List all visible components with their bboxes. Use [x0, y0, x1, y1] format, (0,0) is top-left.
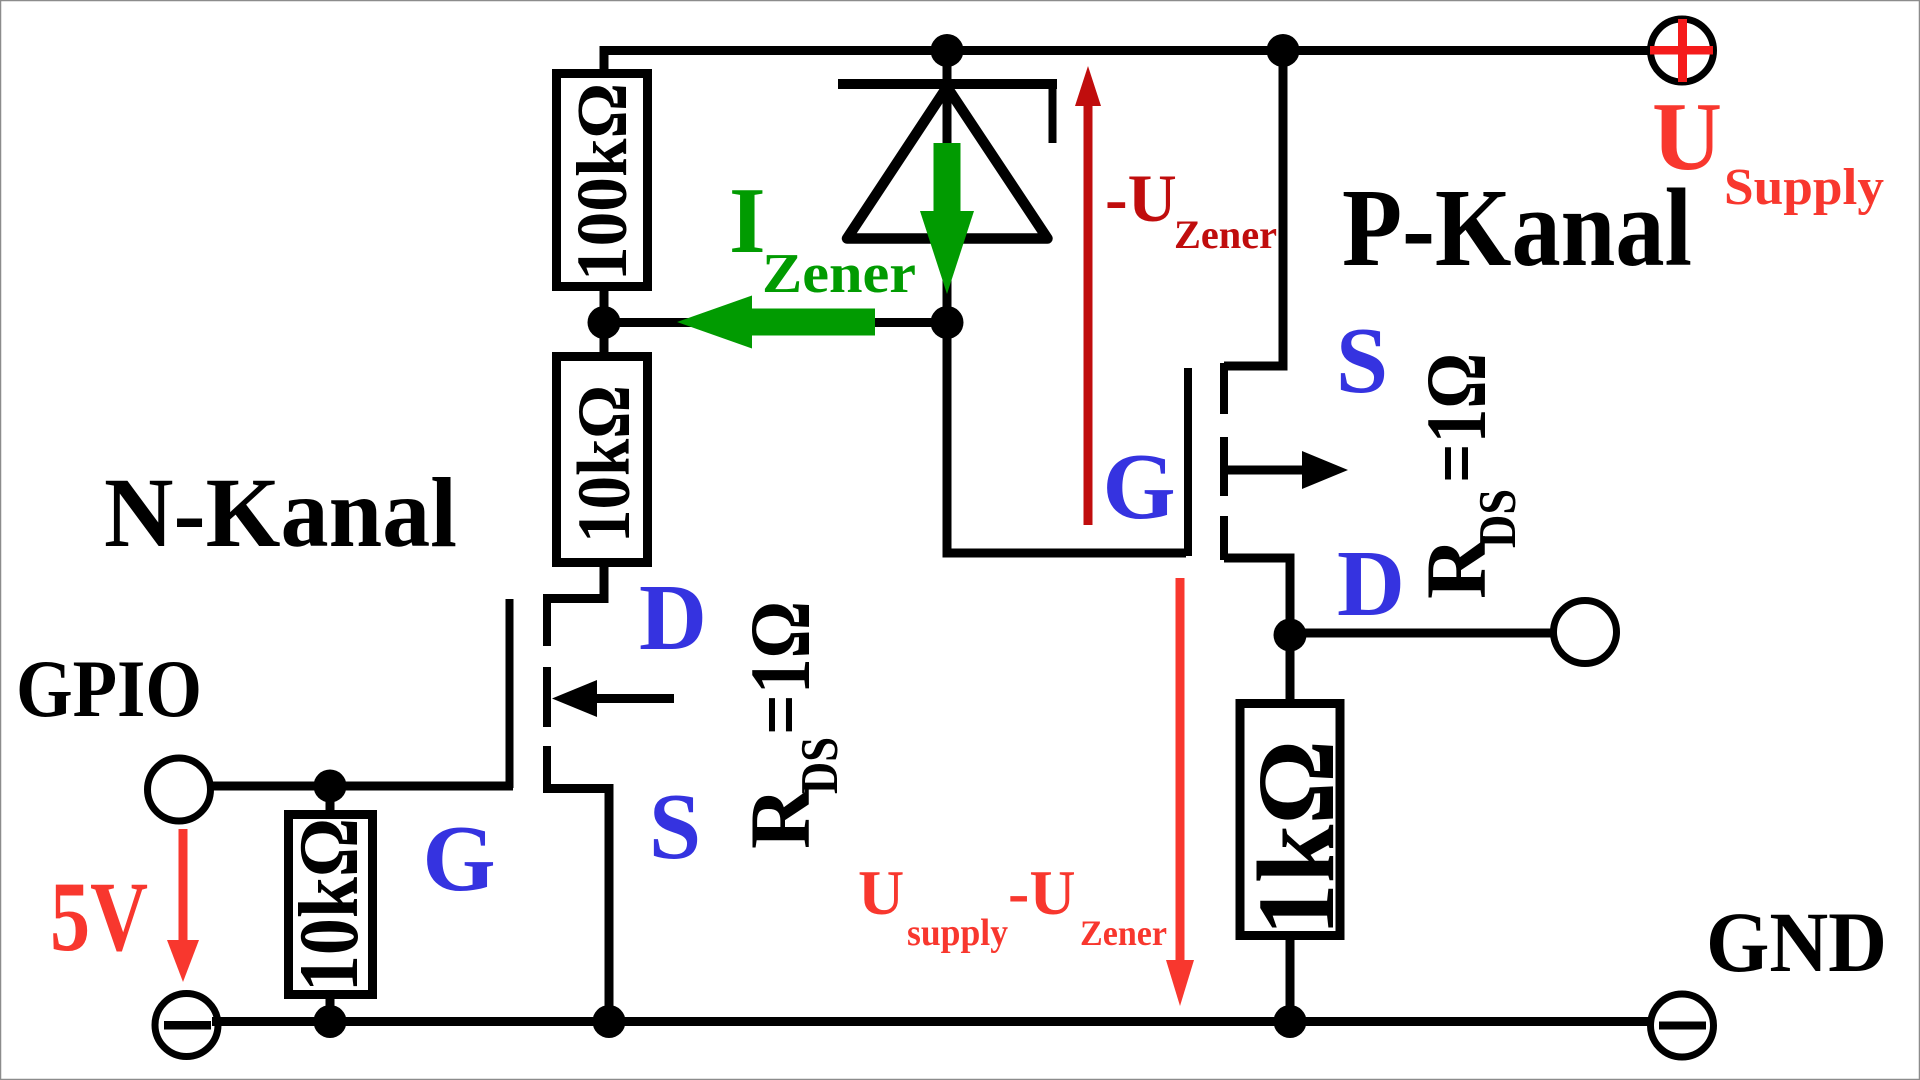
svg-text:G: G — [422, 807, 495, 911]
red arrow U supply - U Zener (down) — [1166, 578, 1194, 1006]
node gate / pulldown — [314, 770, 347, 803]
svg-text:G: G — [1102, 435, 1175, 539]
label GND — [1706, 894, 1887, 990]
wire through zener (rail to anode node) — [943, 51, 952, 323]
N-MOSFET Q1: channel dashes — [543, 598, 551, 792]
resistor 100kΩ — [557, 74, 648, 287]
N-MOSFET Q1: gate bar — [506, 599, 514, 788]
svg-text:supply: supply — [907, 912, 1008, 954]
svg-text:=1Ω: =1Ω — [732, 601, 828, 735]
label U Supply — [1652, 83, 1884, 216]
svg-text:10kΩ: 10kΩ — [563, 385, 646, 543]
terminal U supply (+) — [1650, 19, 1714, 82]
svg-text:I: I — [729, 169, 766, 273]
P-MOSFET Q2: source connector — [1224, 51, 1283, 367]
wire node to 10k pulldown — [326, 786, 335, 818]
node zener anode — [931, 306, 964, 339]
svg-text:U: U — [858, 857, 904, 928]
label D (N-MOSFET drain) — [639, 566, 707, 670]
wire 100k to node A — [600, 285, 609, 355]
label 5V — [50, 861, 148, 972]
svg-text:=1Ω: =1Ω — [1408, 353, 1504, 483]
terminal GND minus — [1651, 994, 1714, 1057]
label D (P-MOSFET drain) — [1337, 532, 1405, 636]
svg-text:R: R — [732, 786, 828, 849]
svg-text:S: S — [649, 775, 701, 879]
svg-text:Zener: Zener — [1174, 212, 1277, 257]
node P drain — [1274, 619, 1307, 652]
terminal 5V minus — [155, 994, 218, 1057]
node rail / pulldown — [314, 1005, 347, 1038]
svg-text:GPIO: GPIO — [16, 643, 202, 734]
label U supply - U Zener — [858, 857, 1167, 954]
label -U Zener — [1105, 160, 1277, 257]
node rail / 1k — [1274, 1005, 1307, 1038]
svg-text:-U: -U — [1105, 160, 1177, 236]
wire 1k to rail — [1286, 932, 1295, 1022]
red 5V arrow (down) — [167, 829, 199, 982]
wire top supply rail — [604, 51, 1650, 77]
svg-text:DS: DS — [1469, 489, 1527, 548]
svg-text:-U: -U — [1008, 857, 1076, 928]
svg-text:10kΩ: 10kΩ — [282, 818, 376, 992]
zener diode D1: triangle — [847, 87, 1048, 239]
green I Zener arrow (left) — [677, 296, 875, 349]
node top rail / P-MOSFET source — [1267, 34, 1300, 67]
node top rail / zener — [931, 34, 964, 67]
label R_DS=1Ω (N-MOSFET) — [732, 601, 849, 849]
label N-Kanal — [104, 457, 457, 568]
svg-text:N-Kanal: N-Kanal — [104, 457, 457, 568]
svg-text:D: D — [639, 566, 707, 670]
resistor 10kΩ (pulldown) — [282, 815, 376, 995]
svg-text:Zener: Zener — [1080, 913, 1167, 953]
wire 10k pulldown to rail — [326, 991, 335, 1022]
wire drain to output terminal — [1290, 629, 1556, 638]
wire bottom ground rail — [212, 1017, 1650, 1026]
label I Zener — [729, 169, 916, 305]
svg-text:Supply: Supply — [1724, 159, 1884, 216]
resistor 10kΩ (divider) — [557, 357, 648, 563]
P-MOSFET Q2: channel dashes — [1220, 363, 1228, 560]
svg-text:1kΩ: 1kΩ — [1235, 740, 1357, 936]
N-MOSFET Q1: substrate arrow (points left) — [552, 680, 674, 717]
N-MOSFET Q1: source connector — [543, 789, 609, 1022]
wire node to 1k — [1286, 635, 1295, 707]
terminal output — [1554, 601, 1617, 664]
svg-text:5V: 5V — [50, 861, 148, 972]
svg-text:P-Kanal: P-Kanal — [1342, 167, 1692, 290]
label GPIO — [16, 643, 202, 734]
P-MOSFET Q2: drain connector — [1224, 558, 1290, 640]
svg-text:100kΩ: 100kΩ — [562, 83, 642, 281]
node A (divider midpoint) — [588, 306, 621, 339]
node rail / N source — [593, 1005, 626, 1038]
label P-Kanal — [1342, 167, 1692, 290]
label S (N-MOSFET source) — [649, 775, 701, 879]
wire P gate from zener node — [947, 318, 1186, 553]
svg-text:GND: GND — [1706, 894, 1887, 990]
wire GPIO to gate — [208, 782, 513, 791]
wire 10k to N-MOSFET drain — [543, 562, 604, 599]
P-MOSFET Q2: substrate arrow (points right) — [1228, 451, 1348, 489]
label G (N-MOSFET gate) — [422, 807, 495, 911]
svg-text:Zener: Zener — [762, 243, 916, 305]
svg-text:D: D — [1337, 532, 1405, 636]
wire node A to zener node — [604, 318, 947, 327]
svg-text:DS: DS — [791, 737, 849, 794]
zener diode D1: cathode bar — [838, 84, 1057, 143]
label G (P-MOSFET gate) — [1102, 435, 1175, 539]
terminal GPIO — [148, 758, 211, 821]
label R_DS=1Ω (P-MOSFET) — [1408, 353, 1527, 599]
red arrow -U Zener (up) — [1075, 66, 1101, 525]
svg-text:S: S — [1336, 309, 1388, 413]
green zener current arrow (down) — [920, 143, 974, 294]
P-MOSFET Q2: gate bar — [1184, 368, 1192, 556]
label S (P-MOSFET source) — [1336, 309, 1388, 413]
resistor 1kΩ — [1235, 704, 1357, 937]
